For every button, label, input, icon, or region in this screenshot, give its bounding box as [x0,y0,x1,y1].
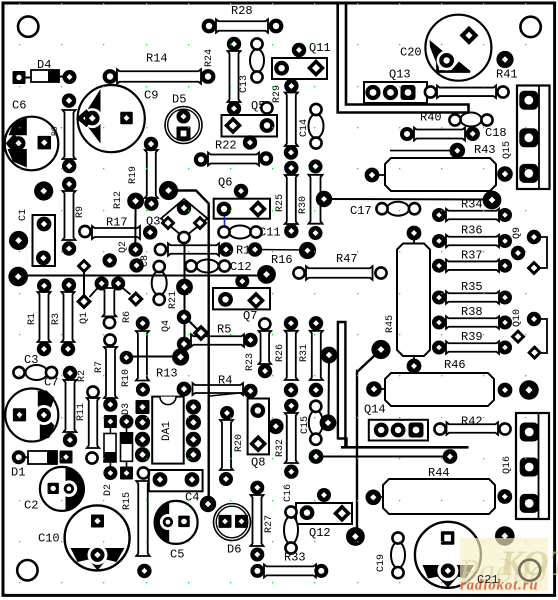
svg-text:R1: R1 [27,313,38,325]
svg-text:R25: R25 [275,194,286,212]
svg-text:R41: R41 [496,68,518,82]
svg-text:C15: C15 [300,416,311,434]
svg-text:R9: R9 [75,206,86,218]
svg-text:R28: R28 [231,4,253,18]
svg-text:Q12: Q12 [309,526,331,540]
svg-text:R29: R29 [272,85,283,103]
svg-text:R10: R10 [121,369,132,387]
svg-text:C6: C6 [12,99,26,113]
svg-text:R14: R14 [146,52,168,66]
svg-text:R43: R43 [474,143,496,157]
svg-text:D1: D1 [11,466,25,480]
svg-text:C17: C17 [350,204,372,218]
svg-text:R44: R44 [428,466,450,480]
svg-text:C14: C14 [299,119,310,137]
svg-text:R12: R12 [113,191,124,209]
svg-text:R35: R35 [461,280,483,294]
svg-text:R21: R21 [168,291,179,309]
svg-text:C3: C3 [24,353,38,367]
svg-text:C16: C16 [283,484,294,502]
svg-text:D2: D2 [103,484,114,496]
svg-text:R22: R22 [215,139,237,153]
svg-text:Q2: Q2 [118,241,129,253]
svg-text:Q7: Q7 [243,309,257,323]
svg-text:Q13: Q13 [389,68,411,82]
svg-text:R3: R3 [51,313,62,325]
svg-text:C10: C10 [38,532,60,546]
svg-text:C9: C9 [144,89,158,103]
svg-text:Q6: Q6 [218,176,232,190]
svg-text:R19: R19 [128,166,139,184]
svg-text:D6: D6 [227,543,241,557]
svg-text:R39: R39 [461,330,483,344]
svg-text:C12: C12 [230,260,252,274]
svg-text:D4: D4 [37,58,51,72]
svg-text:R42: R42 [461,415,483,429]
svg-text:C2: C2 [24,499,38,513]
svg-text:Q9: Q9 [512,227,523,239]
svg-text:R46: R46 [444,358,466,372]
svg-text:Q4: Q4 [161,320,172,332]
svg-text:R16: R16 [271,253,293,267]
svg-text:R37: R37 [461,248,483,262]
svg-text:R36: R36 [461,224,483,238]
svg-text:R45: R45 [385,315,396,333]
svg-text:R27: R27 [264,515,275,533]
svg-text:R2: R2 [77,370,88,382]
svg-text:radiokot.ru: radiokot.ru [460,578,538,594]
svg-text:DA1: DA1 [161,421,173,441]
svg-text:R5: R5 [217,323,231,337]
svg-text:R20: R20 [234,434,245,452]
svg-text:R13: R13 [156,367,178,381]
svg-text:C13: C13 [239,75,250,93]
svg-text:R6: R6 [122,311,133,323]
svg-text:Q10: Q10 [512,309,523,327]
svg-text:C19: C19 [376,554,387,572]
svg-text:R31: R31 [299,344,310,362]
svg-text:R11: R11 [76,403,87,421]
svg-text:R7: R7 [94,361,105,373]
svg-text:C4: C4 [185,491,199,505]
svg-text:R30: R30 [298,196,309,214]
svg-text:D3: D3 [121,403,132,415]
svg-text:D5: D5 [172,93,186,107]
svg-text:R8: R8 [51,126,60,136]
svg-text:R47: R47 [336,252,358,266]
svg-text:Q11: Q11 [309,41,331,55]
svg-text:C21: C21 [477,573,499,587]
svg-text:R15: R15 [122,492,133,510]
svg-text:C5: C5 [170,548,184,562]
svg-text:Q16: Q16 [502,456,513,474]
svg-text:R32: R32 [275,439,286,457]
svg-text:Q8: Q8 [251,456,265,470]
svg-text:R38: R38 [461,305,483,319]
svg-text:Q14: Q14 [364,403,386,417]
svg-text:C18: C18 [485,126,507,140]
svg-text:R26: R26 [275,344,286,362]
svg-text:R24: R24 [204,49,215,67]
svg-text:Q15: Q15 [502,141,513,159]
svg-text:R23: R23 [245,353,256,371]
svg-text:C20: C20 [400,46,422,60]
svg-text:R17: R17 [106,216,128,230]
svg-text:Q1: Q1 [79,312,90,324]
